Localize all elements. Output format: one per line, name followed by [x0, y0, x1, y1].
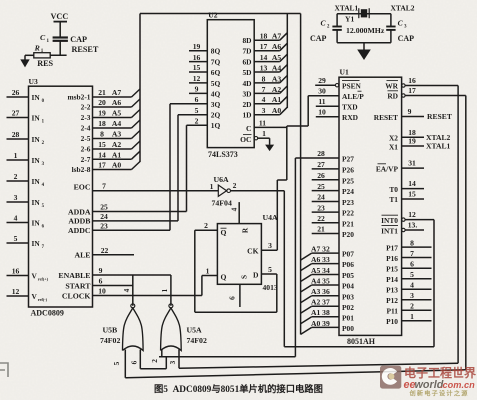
- wire net latched A1 (2Q to ADDB): [93, 115, 179, 221]
- svg-text:29: 29: [318, 76, 326, 85]
- svg-text:A5: A5: [112, 109, 121, 118]
- svg-text:P01: P01: [342, 313, 354, 322]
- svg-text:3: 3: [262, 106, 266, 115]
- U1 pin 9 RESET: [374, 107, 452, 122]
- svg-text:IN: IN: [32, 177, 41, 186]
- svg-text:ref(-): ref(-): [38, 297, 48, 302]
- svg-text:12: 12: [408, 210, 416, 219]
- svg-text:P11: P11: [387, 307, 399, 316]
- svg-text:3: 3: [410, 291, 414, 300]
- svg-text:6: 6: [129, 360, 138, 364]
- svg-text:2: 2: [195, 116, 199, 125]
- scan artifact bottom-left: [0, 363, 8, 377]
- svg-text:23: 23: [317, 203, 325, 212]
- svg-text:P24: P24: [342, 187, 354, 196]
- U1 pin 16 WR: [385, 76, 416, 90]
- wire net latched A2 (3Q to ADDC): [93, 104, 171, 231]
- svg-text:26: 26: [12, 88, 20, 97]
- svg-text:1: 1: [206, 266, 210, 275]
- svg-text:U6A: U6A: [214, 175, 230, 184]
- svg-text:7D: 7D: [242, 47, 251, 56]
- inverter U6A 74F04: [210, 175, 237, 208]
- svg-text:17: 17: [98, 161, 106, 170]
- svg-text:2-6: 2-6: [81, 145, 91, 154]
- svg-text:VCC: VCC: [51, 12, 69, 21]
- svg-text:6D: 6D: [242, 58, 251, 67]
- svg-text:P27: P27: [342, 155, 354, 164]
- svg-text:14: 14: [260, 53, 268, 62]
- svg-text:5Q: 5Q: [211, 79, 221, 88]
- svg-text:CAP: CAP: [70, 35, 87, 44]
- svg-text:A2: A2: [112, 140, 121, 149]
- svg-text:R: R: [241, 227, 250, 233]
- svg-text:19: 19: [408, 137, 416, 146]
- svg-text:U5B: U5B: [103, 326, 118, 335]
- svg-text:4: 4: [14, 214, 18, 223]
- svg-text:A0: A0: [112, 161, 121, 170]
- svg-text:19: 19: [193, 42, 201, 51]
- svg-text:U1: U1: [340, 68, 349, 77]
- svg-text:P00: P00: [342, 324, 354, 333]
- svg-text:4: 4: [230, 207, 239, 211]
- svg-text:2: 2: [233, 181, 237, 190]
- svg-text:A3 36: A3 36: [311, 287, 330, 296]
- svg-text:P07: P07: [342, 250, 354, 259]
- wire net WR to U5A input 3: [179, 86, 458, 369]
- wire net ALE(8051) to latch C and FF clock: [254, 96, 339, 251]
- wire net EOC-inverted to INT0: [231, 191, 435, 347]
- svg-text:P25: P25: [342, 176, 354, 185]
- svg-text:X1: X1: [389, 142, 398, 151]
- svg-text:8: 8: [262, 74, 266, 83]
- svg-text:A4: A4: [112, 119, 121, 128]
- svg-text:4: 4: [122, 288, 131, 292]
- svg-text:3: 3: [14, 193, 18, 202]
- svg-text:11: 11: [318, 97, 325, 106]
- svg-text:6Q: 6Q: [211, 68, 221, 77]
- svg-text:7: 7: [102, 182, 106, 191]
- svg-text:12.000MHz: 12.000MHz: [346, 26, 385, 35]
- svg-text:30: 30: [318, 86, 326, 95]
- svg-text:A7: A7: [272, 32, 281, 41]
- op IC U3 ADC0809: [29, 77, 93, 318]
- svg-text:RESET: RESET: [427, 112, 452, 121]
- svg-text:21: 21: [317, 225, 325, 234]
- NOR gate U5A 74F02: [150, 288, 207, 364]
- svg-text:P17: P17: [386, 243, 398, 252]
- svg-text:Q: Q: [221, 228, 227, 237]
- svg-text:ALE: ALE: [74, 251, 90, 260]
- U1 pin 31 EA/VP: [376, 159, 424, 174]
- svg-text:21: 21: [98, 88, 106, 97]
- svg-text:23: 23: [100, 222, 108, 231]
- svg-text:A5 34: A5 34: [311, 266, 330, 275]
- svg-text:RES: RES: [37, 59, 53, 68]
- svg-text:P03: P03: [342, 292, 354, 301]
- svg-text:5: 5: [410, 270, 414, 279]
- svg-text:7: 7: [410, 249, 414, 258]
- svg-text:A1: A1: [112, 150, 121, 159]
- svg-text:74LS373: 74LS373: [208, 150, 238, 159]
- svg-text:ADC0809: ADC0809: [31, 309, 64, 318]
- svg-text:A4: A4: [272, 63, 281, 72]
- svg-text:XTAL1: XTAL1: [335, 4, 359, 13]
- svg-text:25: 25: [100, 203, 108, 212]
- svg-text:2: 2: [204, 221, 208, 230]
- svg-text:T1: T1: [389, 195, 398, 204]
- wire net latched A0 (1Q to ADDA): [93, 125, 187, 211]
- svg-text:Y1: Y1: [345, 14, 354, 23]
- U3 Vref pins 16,12: [7, 267, 49, 302]
- svg-text:14: 14: [98, 150, 106, 159]
- svg-text:INT1: INT1: [381, 226, 398, 235]
- svg-text:C: C: [40, 33, 46, 42]
- svg-text:T0: T0: [389, 185, 398, 194]
- svg-text:P16: P16: [386, 254, 398, 263]
- svg-text:IN: IN: [32, 219, 41, 228]
- svg-text:24: 24: [100, 212, 108, 221]
- U1 pins X2 X1 (18 XTAL2 / 19 XTAL1): [389, 128, 451, 151]
- svg-text:10: 10: [318, 107, 326, 116]
- svg-text:CAP: CAP: [310, 34, 327, 43]
- svg-text:RXD: RXD: [342, 113, 358, 122]
- U1 pin 29 PSEN: [315, 76, 361, 91]
- svg-text:22: 22: [317, 214, 325, 223]
- svg-text:ADDB: ADDB: [68, 217, 90, 226]
- U2 latch output pins 8Q-1Q: [170, 42, 220, 130]
- svg-text:ADDC: ADDC: [68, 226, 91, 235]
- svg-text:P04: P04: [342, 282, 354, 291]
- svg-text:A3: A3: [112, 130, 121, 139]
- op IC U2 74LS373: [207, 11, 254, 160]
- power VCC: [51, 12, 69, 37]
- svg-text:P15: P15: [386, 265, 398, 274]
- svg-text:P23: P23: [342, 198, 354, 207]
- svg-text:XTAL2: XTAL2: [391, 4, 415, 13]
- svg-text:4013: 4013: [263, 283, 278, 292]
- svg-text:12: 12: [193, 74, 201, 83]
- svg-text:A3: A3: [272, 74, 281, 83]
- svg-text:A6 33: A6 33: [311, 255, 330, 264]
- svg-text:P06: P06: [342, 260, 354, 269]
- svg-text:ENABLE: ENABLE: [58, 271, 90, 280]
- U3 analog input pins IN0-IN7: [7, 88, 45, 250]
- svg-text:2-2: 2-2: [81, 103, 91, 112]
- svg-text:4D: 4D: [242, 79, 251, 88]
- watermark logo eeworld: [380, 365, 476, 398]
- svg-text:P21: P21: [342, 219, 354, 228]
- svg-text:P13: P13: [386, 286, 398, 295]
- svg-text:1: 1: [262, 129, 266, 138]
- svg-text:27: 27: [317, 160, 325, 169]
- U1 pin 12 INT0: [381, 210, 416, 225]
- svg-text:9: 9: [99, 266, 103, 275]
- bus A0-A7 (top + verticals): [140, 14, 301, 335]
- svg-text:9: 9: [195, 85, 199, 94]
- svg-text:IN: IN: [32, 93, 41, 102]
- svg-text:6: 6: [228, 296, 237, 300]
- svg-text:EOC: EOC: [74, 182, 91, 191]
- op IC U1 8051AH: [339, 68, 402, 347]
- svg-text:10: 10: [98, 287, 106, 296]
- svg-text:A2: A2: [272, 85, 281, 94]
- svg-text:IN: IN: [32, 239, 41, 248]
- svg-text:1: 1: [14, 151, 18, 160]
- svg-text:A6: A6: [112, 98, 121, 107]
- svg-text:WR: WR: [385, 81, 398, 90]
- svg-text:8: 8: [100, 130, 104, 139]
- svg-text:2-5: 2-5: [81, 134, 91, 143]
- U1 pins T0 T1: [389, 179, 424, 204]
- U3 pin ALE 22: [74, 246, 134, 260]
- svg-text:17: 17: [408, 86, 416, 95]
- flip-flop U4A 4013: [204, 202, 278, 307]
- svg-text:27: 27: [12, 109, 20, 118]
- svg-text:13.: 13.: [408, 221, 418, 230]
- svg-text:IN: IN: [32, 114, 41, 123]
- svg-text:15: 15: [98, 140, 106, 149]
- svg-text:1: 1: [410, 312, 414, 321]
- crystal Y1 12.000MHz: [335, 4, 415, 36]
- wire net Qbar to D (toggle loop): [195, 230, 277, 312]
- svg-text:5: 5: [268, 265, 272, 274]
- svg-text:74F02: 74F02: [187, 336, 207, 345]
- svg-text:U5A: U5A: [187, 326, 203, 335]
- svg-text:7: 7: [262, 85, 266, 94]
- svg-text:ALE/P: ALE/P: [342, 92, 364, 101]
- svg-text:lsb2-8: lsb2-8: [72, 165, 91, 174]
- svg-text:4: 4: [262, 95, 266, 104]
- svg-text:8: 8: [410, 238, 414, 247]
- svg-text:2: 2: [410, 302, 414, 311]
- svg-text:24: 24: [317, 193, 325, 202]
- svg-text:2: 2: [150, 359, 159, 363]
- svg-text:1Q: 1Q: [211, 121, 221, 130]
- svg-text:msb2-1: msb2-1: [68, 93, 91, 102]
- svg-text:31: 31: [408, 159, 416, 168]
- wire net P27 to NOR inputs: [140, 158, 295, 369]
- U1 pin 13 INT1: [381, 221, 424, 236]
- svg-text:6: 6: [99, 277, 103, 286]
- svg-text:电子工程世界: 电子工程世界: [404, 365, 476, 380]
- resistor R1: [34, 43, 54, 67]
- svg-text:8Q: 8Q: [211, 47, 221, 56]
- svg-text:A1: A1: [272, 95, 281, 104]
- svg-text:26: 26: [317, 171, 325, 180]
- svg-text:图5 ADC0809与8051单片机的接口电路图: 图5 ADC0809与8051单片机的接口电路图: [154, 383, 323, 395]
- U3 address pins ADDA ADDB ADDC: [68, 203, 108, 235]
- svg-text:U3: U3: [29, 77, 38, 86]
- svg-text:A0: A0: [272, 106, 281, 115]
- svg-text:P26: P26: [342, 166, 354, 175]
- wire net EOC to inverter input: [93, 190, 219, 192]
- svg-text:CLOCK: CLOCK: [62, 292, 91, 301]
- capacitor C1: [40, 33, 87, 55]
- svg-text:P02: P02: [342, 303, 354, 312]
- U2 pin OC 1 with ground: [240, 129, 274, 151]
- svg-text:22: 22: [101, 246, 109, 255]
- svg-text:P14: P14: [386, 275, 398, 284]
- svg-text:25: 25: [317, 182, 325, 191]
- svg-text:.com.cn: .com.cn: [440, 380, 475, 390]
- U1 port2 pins P27-P20: [295, 149, 354, 239]
- svg-text:1: 1: [160, 288, 169, 292]
- svg-text:3: 3: [268, 241, 272, 250]
- svg-text:2Q: 2Q: [211, 111, 221, 120]
- U3 pins ENABLE START CLOCK: [58, 266, 106, 300]
- svg-text:ADDA: ADDA: [68, 207, 91, 216]
- svg-text:A2 37: A2 37: [311, 298, 330, 307]
- svg-text:15: 15: [193, 63, 201, 72]
- wire net ENABLE from U5A output: [93, 275, 171, 306]
- wire net CLOCK from FF Q output: [93, 276, 218, 296]
- svg-text:X2: X2: [389, 134, 398, 143]
- ground (reset divider): [20, 55, 34, 67]
- svg-text:16: 16: [408, 76, 416, 85]
- svg-text:2-3: 2-3: [81, 113, 91, 122]
- svg-text:创新电子设计之源: 创新电子设计之源: [409, 390, 469, 398]
- svg-text:6: 6: [195, 95, 199, 104]
- svg-text:11: 11: [259, 119, 266, 128]
- svg-text:A4 35: A4 35: [311, 276, 330, 285]
- wire net RD to U5B input 5: [125, 96, 466, 378]
- svg-text:P12: P12: [386, 296, 398, 305]
- svg-text:5D: 5D: [242, 68, 251, 77]
- svg-text:P10: P10: [386, 317, 398, 326]
- svg-text:18: 18: [98, 119, 106, 128]
- svg-text:2-7: 2-7: [81, 155, 91, 164]
- svg-text:5: 5: [195, 106, 199, 115]
- svg-text:16: 16: [12, 267, 20, 276]
- svg-text:1: 1: [210, 182, 214, 191]
- svg-text:8D: 8D: [242, 36, 251, 45]
- svg-text:12: 12: [12, 287, 20, 296]
- svg-text:1D: 1D: [242, 111, 251, 120]
- wire RC junction: [50, 54, 66, 56]
- svg-text:V: V: [32, 272, 38, 281]
- svg-text:START: START: [65, 281, 91, 290]
- svg-text:XTAL2: XTAL2: [426, 133, 451, 142]
- svg-text:A1 38: A1 38: [311, 308, 330, 317]
- svg-text:Q: Q: [221, 273, 227, 282]
- U3 data output pins 2-1..2-8 to bus: [68, 88, 141, 174]
- svg-text:P22: P22: [342, 209, 354, 218]
- svg-text:2-4: 2-4: [81, 124, 91, 133]
- svg-text:3: 3: [168, 360, 177, 364]
- svg-text:19: 19: [98, 109, 106, 118]
- svg-text:4Q: 4Q: [211, 89, 221, 98]
- svg-text:13: 13: [260, 63, 268, 72]
- U1 pins TXD RXD: [316, 97, 358, 122]
- svg-text:74F04: 74F04: [212, 199, 232, 208]
- svg-text:9: 9: [408, 107, 412, 116]
- svg-text:74F02: 74F02: [100, 336, 120, 345]
- svg-text:CAP: CAP: [398, 34, 415, 43]
- capacitor C3: [386, 14, 414, 44]
- svg-text:U4A: U4A: [263, 213, 279, 222]
- svg-text:A0 39: A0 39: [311, 319, 330, 328]
- svg-text:RD: RD: [387, 91, 398, 100]
- svg-text:IN: IN: [32, 156, 41, 165]
- svg-text:28: 28: [12, 130, 20, 139]
- svg-text:C: C: [246, 124, 251, 133]
- svg-text:D: D: [253, 270, 259, 279]
- svg-text:7Q: 7Q: [211, 58, 221, 67]
- svg-text:P20: P20: [342, 230, 354, 239]
- svg-text:EA/VP: EA/VP: [376, 164, 399, 173]
- svg-text:3D: 3D: [242, 89, 251, 98]
- svg-text:18: 18: [260, 32, 268, 41]
- svg-text:TXD: TXD: [342, 102, 358, 111]
- svg-text:4: 4: [410, 281, 414, 290]
- U1 port1 pins P17-P10: [386, 238, 431, 326]
- svg-text:V: V: [32, 292, 38, 301]
- svg-text:A7 32: A7 32: [311, 245, 330, 254]
- svg-text:ref(+): ref(+): [38, 276, 49, 281]
- svg-text:A7: A7: [112, 88, 121, 97]
- svg-text:16: 16: [193, 53, 201, 62]
- svg-text:P05: P05: [342, 271, 354, 280]
- svg-text:17: 17: [260, 42, 268, 51]
- svg-text:INT0: INT0: [381, 216, 398, 225]
- svg-text:RESET: RESET: [374, 113, 398, 122]
- svg-text:6: 6: [410, 260, 414, 269]
- svg-text:18: 18: [408, 128, 416, 137]
- U1 pin 17 RD: [387, 86, 416, 100]
- capacitor C2: [310, 14, 342, 44]
- svg-text:CK: CK: [247, 247, 258, 256]
- svg-text:5: 5: [112, 361, 121, 365]
- svg-text:15: 15: [408, 190, 416, 199]
- svg-text:IN: IN: [32, 135, 41, 144]
- svg-text:3Q: 3Q: [211, 100, 221, 109]
- svg-text:IN: IN: [32, 198, 41, 207]
- svg-text:S: S: [240, 275, 249, 279]
- wire net START from U5B output: [93, 275, 133, 306]
- svg-text:RESET: RESET: [72, 45, 99, 54]
- U1 port0 pins P07-P00 from bus: [301, 245, 355, 335]
- svg-text:XTAL1: XTAL1: [426, 142, 451, 151]
- U3 pin EOC 7: [74, 182, 107, 192]
- svg-text:PSEN: PSEN: [342, 81, 362, 90]
- ground (crystal): [337, 43, 391, 60]
- U2 pin C 11 (latch enable): [246, 119, 266, 133]
- svg-text:A6: A6: [272, 42, 281, 51]
- svg-text:A5: A5: [272, 53, 281, 62]
- svg-text:5: 5: [14, 234, 18, 243]
- svg-text:20: 20: [98, 98, 106, 107]
- U2 latch input pins 8D-1D from bus: [242, 32, 287, 120]
- svg-text:2: 2: [14, 172, 18, 181]
- svg-text:28: 28: [317, 149, 325, 158]
- svg-text:14: 14: [408, 179, 416, 188]
- NOR gate U5B 74F02: [100, 288, 143, 365]
- svg-text:R: R: [34, 43, 40, 52]
- U1 pin 30 ALE/P: [318, 86, 364, 101]
- svg-text:OC: OC: [240, 135, 251, 144]
- svg-text:U2: U2: [208, 11, 217, 20]
- svg-text:2D: 2D: [242, 100, 251, 109]
- svg-text:8051AH: 8051AH: [347, 337, 376, 346]
